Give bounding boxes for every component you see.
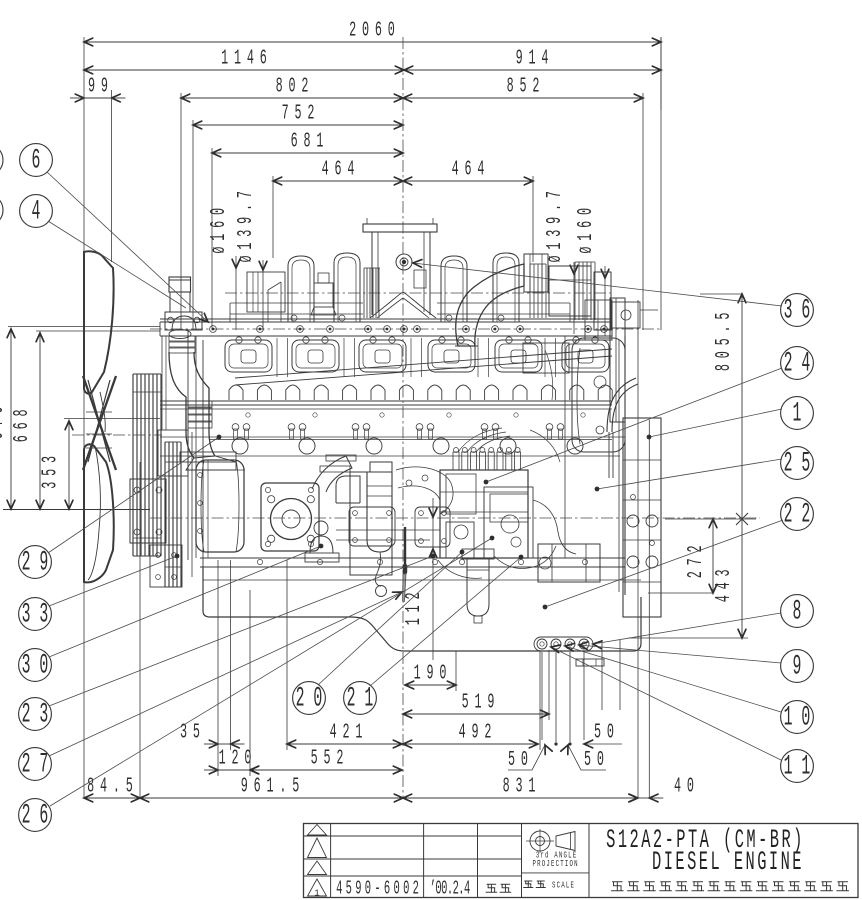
svg-text:SCALE: SCALE [552,880,575,891]
svg-text:ø139.7: ø139.7 [544,185,567,262]
svg-text:PROJECTION: PROJECTION [533,859,579,870]
svg-text:23: 23 [22,698,58,730]
svg-text:50: 50 [508,749,534,772]
svg-text:112: 112 [403,587,426,626]
svg-text:519: 519 [462,691,501,714]
svg-text:8: 8 [793,595,811,627]
svg-text:831: 831 [503,775,542,798]
svg-text:50: 50 [594,721,620,744]
svg-text:99: 99 [88,75,114,98]
svg-text:ø160: ø160 [575,202,598,254]
svg-text:10: 10 [784,701,820,733]
svg-text:1: 1 [793,397,811,429]
svg-text:9: 9 [793,650,811,682]
svg-text:961.5: 961.5 [241,775,305,798]
svg-text:24: 24 [784,347,820,379]
svg-text:353: 353 [39,450,62,489]
svg-text:22: 22 [784,498,820,530]
svg-text:20: 20 [296,682,332,714]
svg-text:1: 1 [314,889,319,899]
svg-text:26: 26 [22,799,58,831]
svg-text:’00.2.4: ’00.2.4 [430,877,470,899]
svg-text:ø139.7: ø139.7 [235,185,258,262]
svg-text:2060: 2060 [349,19,401,42]
svg-text:30: 30 [22,649,58,681]
svg-text:668: 668 [11,404,34,443]
svg-text:443: 443 [713,564,736,603]
svg-text:852: 852 [507,75,546,98]
svg-text:DIESEL ENGINE: DIESEL ENGINE [652,847,804,878]
svg-text:802: 802 [276,75,315,98]
svg-text:492: 492 [459,721,498,744]
svg-text:11: 11 [784,750,820,782]
svg-text:ø160: ø160 [208,202,231,254]
svg-text:4590-6002: 4590-6002 [336,877,422,899]
svg-text:464: 464 [322,158,361,181]
svg-text:4: 4 [32,195,50,227]
svg-text:33: 33 [22,598,58,630]
svg-text:120: 120 [219,747,258,770]
svg-text:070: 070 [0,401,9,440]
svg-text:805.5: 805.5 [713,307,736,371]
svg-text:681: 681 [291,130,330,153]
svg-text:190: 190 [414,662,453,685]
svg-text:272: 272 [685,540,708,579]
svg-text:50: 50 [584,749,610,772]
svg-text:21: 21 [347,682,383,714]
svg-text:552: 552 [311,747,350,770]
svg-text:752: 752 [282,102,321,125]
svg-text:25: 25 [784,447,820,479]
svg-text:464: 464 [452,158,491,181]
svg-text:914: 914 [516,47,555,70]
svg-text:40: 40 [674,775,700,798]
svg-text:36: 36 [784,294,820,326]
svg-text:6: 6 [32,144,50,176]
svg-text:421: 421 [330,721,369,744]
svg-text:1146: 1146 [221,47,273,70]
svg-text:27: 27 [22,748,58,780]
